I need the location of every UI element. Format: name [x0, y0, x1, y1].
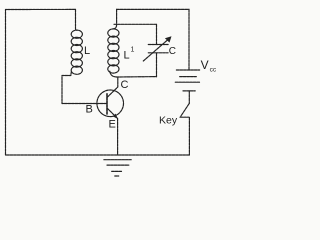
- wire battery to key: [188, 91, 190, 104]
- transistor Q1 base bar: [106, 94, 108, 114]
- svg-text:L: L: [84, 45, 90, 57]
- emitter arrowhead: [113, 114, 118, 119]
- variable capacitor arrow: [143, 39, 169, 62]
- inductor L: [71, 30, 82, 74]
- wire coil L top stub: [75, 9, 77, 30]
- key lever: [181, 104, 189, 116]
- svg-text:cc: cc: [210, 67, 217, 74]
- wire capacitor branch bottom: [156, 53, 158, 77]
- svg-text:Key: Key: [159, 115, 178, 127]
- battery plate long 2: [175, 81, 199, 83]
- wire tank bottom: [117, 76, 157, 78]
- wire tank feed vertical: [116, 9, 118, 24]
- inductor L': [108, 29, 119, 73]
- battery plate short 2: [183, 90, 195, 92]
- svg-text:B: B: [86, 104, 93, 116]
- wire capacitor branch top: [156, 24, 158, 44]
- wire top rail tank to battery: [117, 8, 189, 10]
- ground line 1: [104, 159, 131, 161]
- svg-text:C: C: [169, 46, 176, 57]
- capacitor C plate top: [148, 44, 168, 46]
- ground line 3: [112, 170, 122, 172]
- svg-text:1: 1: [131, 47, 135, 54]
- wire tank top: [114, 23, 157, 25]
- transistor Q1 collector lead: [107, 77, 118, 98]
- battery plate short 1: [180, 76, 197, 78]
- svg-text:E: E: [109, 119, 116, 131]
- wire battery drop: [188, 9, 190, 69]
- key contact: [180, 116, 189, 118]
- variable capacitor arrowhead: [165, 36, 172, 42]
- wire coil L' top curve: [113, 24, 116, 29]
- svg-text:C: C: [121, 79, 129, 91]
- capacitor C plate bottom: [148, 52, 168, 54]
- svg-text:L: L: [124, 50, 130, 62]
- svg-text:V: V: [201, 58, 209, 72]
- battery plate long 1: [176, 69, 199, 71]
- wire emitter to bottom rail: [117, 119, 119, 156]
- transistor Q1 emitter lead: [107, 108, 117, 118]
- transistor Q1 circle: [97, 90, 124, 117]
- wire key to bottom rail: [188, 118, 190, 156]
- ground line 4: [115, 175, 119, 177]
- wire coil L' bottom curve to tank bottom: [110, 71, 117, 77]
- wire coil L bottom to base: [62, 72, 107, 104]
- ground line 2: [107, 164, 129, 166]
- wire left loop: top wire, left side, bottom rail: [6, 9, 190, 155]
